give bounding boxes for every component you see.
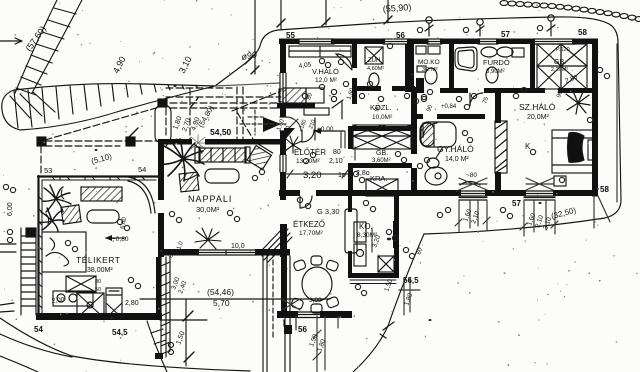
lot curve SE (steep down to bottom) bbox=[353, 234, 424, 372]
ladder column gy|sz bbox=[495, 121, 507, 173]
plant eloter bbox=[285, 136, 302, 153]
svg-text:10,0: 10,0 bbox=[231, 243, 245, 250]
ko west wall bbox=[348, 196, 352, 212]
telikert rug bbox=[42, 232, 86, 272]
sofa nappali bbox=[195, 147, 250, 163]
wall under zuh/mo.ko (y86) bbox=[355, 86, 381, 91]
svg-text:+0,84: +0,84 bbox=[441, 104, 457, 110]
ko door tall bbox=[345, 209, 357, 253]
gy.halo north wall (y118) bbox=[413, 114, 423, 119]
svg-text:GB.: GB. bbox=[554, 59, 566, 66]
faint line band tip to wall bbox=[215, 83, 280, 86]
svg-text:54: 54 bbox=[138, 165, 146, 174]
door diag nappali-etkezo + hatch bbox=[262, 227, 292, 262]
wall stub v.halo sw bbox=[277, 103, 315, 109]
ext lines below etkezo bbox=[296, 316, 338, 372]
svg-text:2,10: 2,10 bbox=[329, 158, 343, 165]
plant sz corner bbox=[566, 91, 590, 114]
window top wall 5 bbox=[533, 39, 575, 44]
stairs band left of telikert bbox=[21, 228, 36, 315]
terrace lines below nappali bbox=[140, 252, 330, 372]
porch post SW bbox=[37, 137, 46, 146]
slope band lower (lens shaped, hatched) bbox=[2, 84, 215, 130]
etkezo bottom window bbox=[284, 312, 320, 328]
svg-text:5,70: 5,70 bbox=[213, 298, 230, 308]
svg-text:13,20M²: 13,20M² bbox=[296, 158, 321, 165]
svg-text:6,00: 6,00 bbox=[7, 202, 14, 216]
TELIKERT walls thin bbox=[38, 176, 161, 319]
svg-text:53: 53 bbox=[44, 166, 52, 175]
svg-text:3,2 M²: 3,2 M² bbox=[422, 67, 438, 73]
telikert sofa bbox=[81, 187, 122, 201]
nightstand sz.halo bbox=[554, 176, 566, 186]
svg-text:SZ.HÁLÓ: SZ.HÁLÓ bbox=[519, 102, 556, 112]
svg-text:KO.: KO. bbox=[359, 222, 373, 231]
svg-text:55: 55 bbox=[286, 31, 295, 40]
WALLS bbox=[156, 39, 598, 321]
rounded pillar outline bbox=[155, 105, 171, 143]
svg-text:3,90M²: 3,90M² bbox=[486, 69, 505, 75]
long south wall y190 bbox=[279, 190, 300, 196]
sofa gy.halo bbox=[420, 122, 456, 147]
svg-text:50: 50 bbox=[95, 287, 101, 293]
dim slash marks NW bbox=[128, 54, 255, 362]
eloter west sidelight window bbox=[280, 155, 286, 172]
svg-text:54,50: 54,50 bbox=[210, 127, 232, 137]
chain fence line top-right bbox=[500, 1, 640, 22]
closet X gb58 bbox=[537, 44, 587, 89]
armchair nappali W bbox=[179, 172, 199, 192]
ko sill lines bbox=[350, 280, 396, 284]
telikert chair bbox=[61, 205, 81, 224]
svg-text:30,0M²: 30,0M² bbox=[196, 205, 220, 214]
divider furdo | gb58 bbox=[530, 44, 535, 90]
telikert bottom wall thick bbox=[36, 313, 162, 320]
svg-text:80: 80 bbox=[333, 149, 341, 156]
etkezo table oval bbox=[302, 267, 332, 301]
svg-text:2,8o: 2,8o bbox=[356, 170, 370, 177]
slope ticks bottom-left bbox=[151, 329, 170, 355]
top wall north wing segments bbox=[279, 39, 299, 45]
dim nodes above top wall bbox=[425, 15, 555, 36]
west exterior wall segments (x 280) bbox=[280, 39, 286, 73]
gb-mid top wall bbox=[349, 126, 415, 131]
divider zuh | mo.ko bbox=[405, 44, 414, 92]
svg-text:2,20M²: 2,20M² bbox=[551, 67, 568, 73]
WINDOWS (thin) bbox=[196, 39, 575, 256]
south wall window 1 bbox=[459, 191, 487, 200]
black mark terrace sw bbox=[155, 353, 163, 359]
svg-text:(54,46): (54,46) bbox=[207, 287, 234, 297]
threshold kozl bbox=[304, 100, 344, 140]
entry door gap jambs bbox=[280, 117, 286, 131]
west arrow mark bbox=[0, 38, 22, 44]
gb | kra wall (y161) bbox=[352, 163, 412, 168]
svg-text:17,70M²: 17,70M² bbox=[299, 230, 324, 237]
gb-mid hatched top bbox=[353, 125, 411, 149]
svg-text:MO.KO: MO.KO bbox=[418, 59, 440, 66]
bed sz.halo bbox=[552, 130, 597, 173]
svg-text:54: 54 bbox=[34, 325, 43, 334]
window west wall v.halo bbox=[280, 73, 286, 103]
svg-text:1o: 1o bbox=[338, 172, 346, 179]
left edge step marks bbox=[0, 244, 16, 312]
nappali top wall bbox=[158, 139, 192, 145]
svg-text:56: 56 bbox=[298, 325, 307, 334]
black post terrace bbox=[284, 325, 292, 334]
scattered tiny dimension digits bbox=[120, 87, 564, 259]
fixtures mo.ko bbox=[416, 46, 440, 84]
svg-text:NAPPALI: NAPPALI bbox=[188, 194, 232, 204]
svg-text:~80: ~80 bbox=[466, 172, 477, 179]
telikert curved glass corner bbox=[128, 177, 155, 213]
coffee table nappali bbox=[205, 169, 239, 183]
svg-text:14,0 M²: 14,0 M² bbox=[445, 156, 469, 163]
svg-text:FÜRDŐ: FÜRDŐ bbox=[483, 58, 510, 67]
svg-text:3,60M²: 3,60M² bbox=[372, 158, 391, 164]
ext lines below south windows bbox=[455, 196, 610, 236]
right exterior wall bbox=[592, 39, 598, 197]
svg-text:KRA.: KRA. bbox=[370, 174, 388, 183]
divider mo.ko | furdo bbox=[449, 44, 454, 92]
svg-text:ELŐTÉR: ELŐTÉR bbox=[294, 148, 326, 157]
armchair gy.halo bbox=[460, 182, 480, 186]
kra closet bbox=[366, 179, 398, 196]
etkezo bottom wall bbox=[277, 311, 298, 318]
eloter | gb-mid wall (x349) bbox=[348, 126, 353, 149]
svg-text:ZUH: ZUH bbox=[368, 58, 380, 64]
window top wall 2 bbox=[383, 39, 410, 44]
svg-text:58: 58 bbox=[600, 185, 609, 194]
south wall window 2 bbox=[524, 191, 555, 200]
door arcs bbox=[423, 123, 437, 138]
nappali west wall bbox=[158, 139, 164, 200]
PORCH (dashed overhang NW of nappali) bbox=[41, 87, 281, 175]
dark box mo.ko bbox=[416, 78, 424, 90]
telikert counter bbox=[53, 276, 104, 318]
bathtub furdo bbox=[455, 47, 477, 71]
window top wall 3 bbox=[427, 39, 442, 44]
wall kozl | gy.halo (x411) bbox=[411, 92, 417, 154]
shower zuh bbox=[365, 47, 383, 87]
plant nappali south bbox=[195, 228, 221, 249]
plant nappali big bbox=[162, 139, 204, 181]
svg-text:−0,80: −0,80 bbox=[112, 236, 129, 243]
white lamp star on wall bbox=[191, 135, 207, 149]
site curves bottom-left bbox=[0, 318, 250, 371]
svg-text:GY.HÁLÓ: GY.HÁLÓ bbox=[437, 144, 474, 154]
svg-text:G 3,30: G 3,30 bbox=[317, 207, 340, 216]
svg-text:54,5: 54,5 bbox=[112, 328, 128, 337]
lot boundary line with rounded corner bbox=[215, 17, 621, 234]
svg-text:3,00: 3,00 bbox=[309, 297, 322, 304]
svg-text:GB.: GB. bbox=[376, 150, 388, 157]
dim line eloter west bbox=[240, 110, 286, 135]
misc dim verticals mid bbox=[285, 131, 420, 315]
svg-text:TÉLIKERT: TÉLIKERT bbox=[76, 255, 120, 265]
svg-text:(55,90): (55,90) bbox=[382, 2, 411, 14]
curtain X marks under south windows bbox=[282, 178, 553, 310]
svg-text:57: 57 bbox=[501, 30, 510, 39]
divider v.halo | zuh bbox=[352, 44, 357, 68]
wardrobe v.halo bbox=[289, 46, 351, 57]
svg-text:58: 58 bbox=[578, 28, 587, 37]
telikert table bbox=[87, 210, 119, 223]
entry arrow bbox=[263, 117, 281, 132]
extension lines from top edge bbox=[255, 0, 388, 74]
window top wall 1 bbox=[299, 39, 334, 44]
etkezo chairs bbox=[291, 256, 340, 313]
porch post S bbox=[126, 137, 135, 146]
entry door leaf + arc bbox=[286, 117, 301, 131]
svg-text:20,0M²: 20,0M² bbox=[527, 114, 549, 121]
svg-text:4,60M²: 4,60M² bbox=[367, 66, 384, 72]
svg-text:K: K bbox=[525, 142, 531, 151]
ko east wall bbox=[394, 196, 399, 278]
porch post E bbox=[158, 99, 167, 107]
svg-text:56: 56 bbox=[396, 31, 405, 40]
telikert plants bbox=[39, 185, 71, 232]
svg-text:3,20: 3,20 bbox=[303, 170, 322, 181]
handwritten dim circle clutter bbox=[3, 25, 609, 295]
svg-text:ÉTKEZŐ: ÉTKEZŐ bbox=[293, 220, 325, 229]
ko bottom wall bbox=[348, 273, 398, 278]
wc furdo bbox=[512, 48, 524, 57]
svg-text:P.120: P.120 bbox=[556, 47, 570, 53]
sz/gy divider top+bottom bbox=[495, 88, 501, 123]
svg-text:56,5: 56,5 bbox=[403, 276, 419, 285]
telikert south-right wall bbox=[156, 257, 161, 320]
guitar gy.halo bbox=[425, 147, 447, 185]
svg-text:KÖZL.: KÖZL. bbox=[370, 103, 392, 112]
nappali bottom wall bbox=[158, 249, 197, 256]
sink furdo bbox=[481, 47, 513, 83]
nappali bottom window/door bbox=[197, 250, 257, 255]
telikert tall cabinet bbox=[106, 288, 122, 318]
svg-text:+0,00: +0,00 bbox=[317, 126, 334, 133]
svg-text:57: 57 bbox=[512, 199, 521, 208]
ink blots bbox=[95, 85, 542, 321]
ko kitchen bbox=[354, 221, 398, 272]
wall under furdo/gb58 (y88) bbox=[440, 88, 468, 93]
door arc v.halo bbox=[336, 54, 352, 70]
svg-text:38,00M²: 38,00M² bbox=[87, 267, 113, 274]
svg-text:2,80: 2,80 bbox=[125, 300, 139, 307]
slope band upper (retaining wall, top-left) bbox=[15, 0, 82, 95]
svg-text:80: 80 bbox=[95, 279, 101, 285]
svg-text:12,0 M²: 12,0 M² bbox=[315, 77, 338, 84]
svg-text:10,0M²: 10,0M² bbox=[372, 114, 393, 121]
window top wall 4 bbox=[478, 39, 498, 44]
armchair nappali E bbox=[247, 143, 273, 169]
svg-text:V.HÁLÓ: V.HÁLÓ bbox=[312, 67, 339, 76]
bed v.halo bbox=[279, 88, 337, 103]
